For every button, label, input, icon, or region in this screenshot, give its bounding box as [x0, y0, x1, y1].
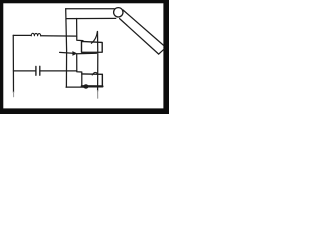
input arrow shaft — [60, 51, 73, 54]
inductor L1 — [31, 33, 41, 36]
wire left vertical fading end — [13, 92, 15, 97]
wire bottom W3 — [66, 86, 84, 88]
wire left vertical — [12, 35, 14, 92]
capacitor C1 — [36, 66, 40, 75]
wire drop V2b — [77, 54, 82, 85]
input arrow head — [72, 51, 77, 56]
box B1 (upper cell) — [82, 41, 103, 53]
box B2 bottom merged band — [82, 85, 103, 87]
diagonal arm end cap — [159, 49, 164, 54]
pivot circle — [114, 8, 123, 17]
wire top horizontal W1 — [13, 34, 76, 37]
electrode hump in B2 — [92, 72, 97, 75]
electrode vertical through boxes — [97, 32, 99, 92]
wire center vertical V1 — [65, 9, 68, 87]
electrode hook in B1 — [91, 32, 97, 44]
lever arm lower line — [66, 17, 116, 19]
border frame — [0, 0, 169, 114]
diagonal arm lower edge — [120, 19, 159, 55]
box B2 (lower cell) — [82, 74, 103, 87]
wire drop V2 — [77, 19, 83, 41]
wire capacitor branch W2 — [13, 70, 76, 72]
diagonal arm upper edge — [123, 10, 164, 46]
wire under B1 — [77, 52, 96, 55]
electrode vertical fading tail — [97, 91, 99, 99]
lever arm upper line — [66, 8, 115, 10]
junction dot — [83, 84, 88, 88]
